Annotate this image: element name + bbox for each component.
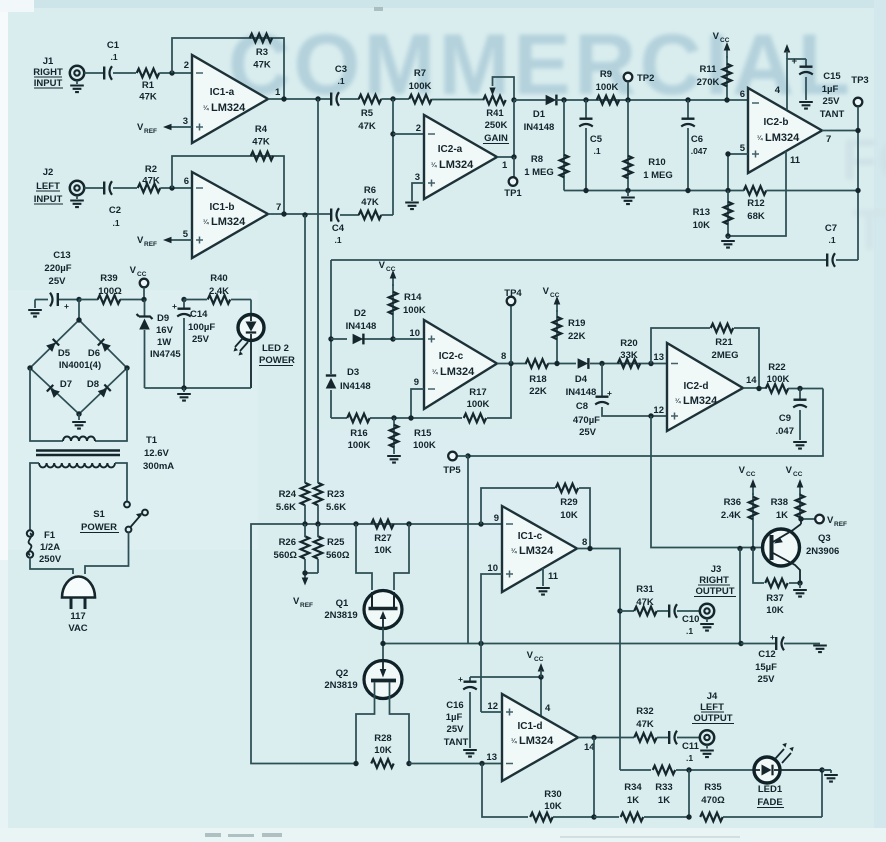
svg-text:12: 12 [653,405,664,416]
ground LED1 [822,770,838,782]
svg-text:LED 2: LED 2 [262,343,289,354]
node TP5 [465,453,470,458]
svg-text:R9: R9 [600,69,612,80]
tie down to bottom line [688,770,690,817]
svg-text:C9: C9 [779,413,791,424]
svg-text:R23: R23 [327,489,344,500]
node R19 [554,361,559,366]
svg-text:.1: .1 [337,76,344,86]
svg-text:LM324: LM324 [683,395,718,407]
svg-text:R15: R15 [414,428,432,439]
capacitor C4 .1 [331,208,345,245]
control line TP5 down to fader [467,456,469,644]
svg-text:270K: 270K [697,77,720,88]
svg-text:R19: R19 [568,318,585,329]
op-amp IC2-b [740,88,832,173]
svg-text:1W: 1W [157,337,171,348]
svg-text:R14: R14 [404,292,422,303]
svg-text:R20: R20 [620,338,637,349]
resistor R9 100K [596,69,620,104]
pin12 wire [481,711,502,713]
resistor R36 2.4K [721,493,757,549]
svg-text:250K: 250K [485,120,508,131]
svg-text:47K: 47K [252,137,270,148]
svg-text:25V: 25V [447,724,465,735]
svg-text:10K: 10K [374,745,392,756]
svg-text:REF: REF [144,128,157,135]
node C14 top [181,297,186,302]
svg-text:TANT: TANT [820,109,845,120]
node output/R17 [508,361,513,366]
Vcc feed R14 [379,260,397,286]
svg-text:2: 2 [184,60,189,71]
capacitor C2 .1 [104,181,121,228]
ground under R15 [387,452,401,463]
resistor R25 560 [314,524,350,573]
pin11 wire IC2-b [728,151,801,236]
svg-text:V: V [137,235,144,246]
wire J1 to C1 [84,72,103,74]
node LED right [819,767,824,772]
svg-text:100K: 100K [767,374,790,385]
node R29 tap [478,521,483,526]
svg-text:D2: D2 [354,308,366,319]
svg-text:R38: R38 [771,497,788,508]
svg-text:POWER: POWER [81,522,117,533]
node Q3 base / R36 [750,546,755,551]
wire R6 up to pin2 node [381,214,393,216]
svg-text:C2: C2 [109,205,121,216]
svg-text:¼: ¼ [431,161,437,169]
svg-text:7: 7 [826,134,831,145]
svg-text:100K: 100K [403,305,426,316]
svg-text:47K: 47K [358,121,376,132]
node R21 tap [648,361,653,366]
node R13/pin11 ground [725,233,730,238]
svg-text:INPUT: INPUT [34,78,63,89]
Q2 bracket to R28 [356,682,409,764]
svg-text:C14: C14 [190,309,208,320]
svg-text:R35: R35 [704,782,722,793]
capacitor C3 .1 [331,64,347,106]
svg-text:10K: 10K [560,510,578,521]
resistor R39 100ohm [79,273,144,304]
node pin2 tap [390,131,395,136]
resistor R37 10K [753,549,800,617]
ground under Q3 [793,583,807,597]
svg-text:Q1: Q1 [336,598,349,609]
svg-text:R22: R22 [768,362,785,373]
svg-text:R24: R24 [279,489,297,500]
svg-text:.047: .047 [776,426,795,437]
resistor R11 270K [697,56,732,100]
resistor R22 100K [766,362,823,393]
wire D1 to IC2-b pin6 [564,99,748,101]
svg-text:1 MEG: 1 MEG [524,167,554,178]
node pin5 [725,151,730,156]
capacitor C9 .047 [776,389,807,449]
Vref feed pin5 IC1-b [137,235,192,248]
svg-text:C8: C8 [576,401,588,412]
svg-text:LM324: LM324 [211,102,246,114]
summing line with left loop [251,524,502,764]
svg-text:.1: .1 [686,753,693,763]
zener D9 16V 1W IN4745 [137,300,182,389]
wire C2 to R2 [113,187,137,189]
svg-text:D1: D1 [533,109,546,120]
svg-text:C13: C13 [53,250,70,261]
wire node down to pin2 [392,99,394,215]
svg-text:16V: 16V [156,325,174,336]
svg-text:IC2-a: IC2-a [438,144,463,155]
svg-text:TP5: TP5 [443,465,461,476]
pin9 wire loop [411,389,424,418]
R27 bracket to Q1 [356,524,409,590]
svg-text:47K: 47K [636,719,654,730]
svg-text:IC1-c: IC1-c [518,531,543,542]
svg-text:TP1: TP1 [504,188,522,199]
svg-text:14: 14 [746,375,757,386]
svg-text:.1: .1 [112,218,119,228]
summing nodes [302,521,307,526]
svg-text:S1: S1 [93,509,105,520]
svg-text:R16: R16 [350,428,367,439]
svg-text:10K: 10K [374,545,392,556]
svg-text:470µF: 470µF [573,415,600,426]
svg-text:300mA: 300mA [143,461,174,472]
pin5 wire IC2-b [728,154,748,191]
diode D2 IN4148 [331,308,393,344]
Vcc feed R19 [543,286,561,312]
feedback resistor R21 2MEG [651,324,759,389]
svg-text:D3: D3 [347,367,359,378]
wire IC2-d output [743,387,766,389]
resistor R4 47K [251,124,274,160]
svg-text:R31: R31 [636,584,654,595]
JFET Q2 2N3819 [324,660,402,699]
svg-text:2.4K: 2.4K [721,510,741,521]
wire IC2-a output [497,100,514,157]
feedback resistor R29 10K [481,484,590,549]
svg-text:J2: J2 [43,167,54,178]
svg-text:IC1-a: IC1-a [210,87,235,98]
svg-text:V: V [527,650,534,661]
wire R7 to R41 [432,99,484,101]
wires to plug [30,532,129,574]
node R21 output [756,386,761,391]
svg-text:47K: 47K [361,197,379,208]
Vcc line pin4 IC1-d [470,650,551,716]
svg-text:25V: 25V [192,334,210,345]
svg-text:5: 5 [183,229,189,240]
AC plug 117 VAC [62,577,95,635]
bridge rectifier D5 D6 D7 D8 [27,300,129,417]
svg-text:CC: CC [386,266,396,273]
wire IC1-d output [578,737,634,739]
svg-text:5.6K: 5.6K [326,502,346,513]
capacitor C14 100uF 25V [172,300,215,389]
op-amp IC1-d [486,694,595,781]
wire to pin10 [393,338,424,340]
svg-text:1K: 1K [627,795,639,806]
svg-text:LM324: LM324 [765,132,800,144]
svg-text:TH: TH [852,198,886,263]
node C5 [583,97,588,102]
svg-text:R7: R7 [414,68,426,79]
transistor Q3 2N3906 [763,519,840,583]
svg-text:C16: C16 [446,700,463,711]
test point TP4 [504,288,522,364]
capacitor C10 .1 [669,604,699,636]
ground symbol on rail [621,191,635,205]
Vcc feed R11 [713,31,731,58]
resistor R6 47K [359,185,382,219]
svg-text:R39: R39 [100,273,117,284]
wire IC1-b output to C4 [268,213,330,215]
wire to IC1-d pin13 [409,763,502,765]
Vcc terminal [130,265,149,300]
capacitor C11 .1 [669,731,699,763]
op-amp IC2-c [409,320,506,409]
svg-text:100µF: 100µF [188,322,215,333]
svg-text:Q3: Q3 [818,533,831,544]
svg-text:47K: 47K [636,597,654,608]
svg-text:12.6V: 12.6V [144,448,169,459]
svg-text:R34: R34 [624,782,642,793]
svg-text:5.6K: 5.6K [276,502,296,513]
svg-text:IN4148: IN4148 [566,387,597,398]
resistor R19 22K [553,310,586,364]
svg-text:560Ω: 560Ω [274,550,298,561]
svg-text:.047: .047 [691,146,708,156]
svg-text:FADE: FADE [757,797,782,808]
resistor R31 47K [620,584,668,615]
svg-text:560Ω: 560Ω [326,550,350,561]
svg-text:C7: C7 [825,223,837,234]
capacitor C5 .1 [579,100,603,191]
svg-text:CC: CC [534,656,544,663]
svg-text:25V: 25V [823,96,841,107]
resistor R23 5.6K [314,481,347,524]
node mix [390,96,395,101]
wire IC1-c output down to R31/R33 [577,549,620,771]
svg-text:T1: T1 [146,435,158,446]
svg-text:7: 7 [276,202,281,213]
svg-text:C1: C1 [107,40,120,51]
svg-text:1/2A: 1/2A [40,542,60,553]
capacitor C1 .1 [104,40,120,80]
op-amp IC1-b [183,172,282,258]
svg-text:D5: D5 [58,348,71,359]
node R11 pin6 [724,97,729,102]
fuse F1 1/2A 250V [27,530,62,565]
svg-text:IN4745: IN4745 [150,349,181,360]
svg-text:2MEG: 2MEG [712,350,739,361]
svg-text:15µF: 15µF [755,662,777,673]
node R3 output [281,96,286,101]
capacitor C15 1uF 25V TANT [791,56,844,120]
resistor R7 100K [409,68,432,103]
node TP2/R10 [625,97,630,102]
LED 1 FADE [754,743,831,808]
svg-text:2: 2 [416,123,421,134]
scan smudges [205,7,740,838]
op-amp IC2-d [653,343,757,431]
svg-text:25V: 25V [758,674,776,685]
svg-text:117: 117 [70,611,85,622]
wire R2 to IC1-b pin6 [160,187,192,189]
svg-text:J4: J4 [707,691,718,702]
svg-text:47K: 47K [142,176,160,187]
svg-text:CC: CC [746,471,756,478]
svg-text:R41: R41 [486,108,504,119]
resistor R27 10K [371,520,394,556]
feedback resistor R12 68K [744,186,767,222]
svg-text:RIGHT: RIGHT [699,575,729,586]
svg-text:1: 1 [275,87,281,98]
svg-text:R6: R6 [364,185,376,196]
feedback resistor R17 100K [464,364,511,423]
svg-text:R26: R26 [279,537,296,548]
Vcc feed R38 [786,465,804,495]
capacitor C8 470uF 25V [573,364,667,439]
svg-text:IC1-b: IC1-b [210,202,235,213]
ground rail under IC2-b [564,190,858,192]
op-amp IC1-a [183,55,281,143]
node base branch [737,546,742,551]
node branch to R24 [302,212,307,217]
svg-text:10K: 10K [766,605,784,616]
capacitor C13 220uF 25V [35,250,79,311]
svg-text:V: V [379,260,386,271]
svg-text:R1: R1 [142,80,155,91]
control line down to TP5 [468,389,823,457]
node R34/R35 [686,814,691,819]
svg-text:V: V [786,465,793,476]
node R41/D1/output [511,97,516,102]
capacitor C6 .047 [681,100,707,191]
pin4 Vcc wire and arrow [775,44,806,110]
resistor R3 47K [250,34,273,71]
svg-text:R25: R25 [327,537,345,548]
svg-text:R3: R3 [256,47,268,58]
svg-text:10: 10 [409,328,420,339]
svg-text:6: 6 [184,176,189,187]
node output 14 [591,735,596,740]
svg-text:J3: J3 [711,564,722,575]
node C14 bottom [181,385,186,390]
svg-text:¼: ¼ [203,218,209,226]
wire IC1-a output to C3 [268,98,330,100]
svg-text:R36: R36 [724,497,741,508]
svg-text:¼: ¼ [203,104,209,112]
node R30/R34 [591,814,596,819]
bottom line R16 [331,414,462,451]
svg-text:CC: CC [550,292,560,299]
svg-text:C6: C6 [691,134,703,145]
svg-text:C12: C12 [758,649,775,660]
wire feedback loop R4 [172,156,284,214]
svg-text:IC1-d: IC1-d [518,721,543,732]
svg-text:LM324: LM324 [211,216,246,228]
pin11 ground IC1-c [536,568,559,595]
svg-text:100K: 100K [413,440,436,451]
diode D3 IN4148 [326,339,371,418]
svg-text:1µF: 1µF [822,84,839,95]
svg-text:Q2: Q2 [336,668,349,679]
svg-text:R18: R18 [529,374,546,385]
svg-text:GAIN: GAIN [484,133,508,144]
svg-text:R11: R11 [700,64,718,75]
svg-text:LEFT: LEFT [700,702,724,713]
svg-text:C5: C5 [590,134,603,145]
wire R5 to R7 [381,98,409,100]
svg-text:LM324: LM324 [440,366,475,378]
svg-text:10K: 10K [693,220,711,231]
svg-text:+: + [458,674,463,684]
svg-text:100K: 100K [348,440,371,451]
svg-text:3: 3 [415,172,420,183]
svg-text:CC: CC [793,471,803,478]
svg-text:R5: R5 [361,108,374,119]
svg-text:D8: D8 [87,379,99,390]
svg-text:C10: C10 [682,614,699,625]
svg-text:2N3819: 2N3819 [324,680,357,691]
svg-text:¼: ¼ [511,547,517,555]
svg-text:C4: C4 [332,223,345,234]
svg-text:V: V [739,465,746,476]
svg-text:R27: R27 [374,533,391,544]
resistor R20 33K [618,338,641,368]
branch output down [593,738,595,818]
svg-text:IN4148: IN4148 [524,122,555,133]
svg-text:REF: REF [834,521,847,528]
svg-text:R30: R30 [544,789,561,800]
svg-text:V: V [293,596,300,607]
ground pin3 IC2-a [405,183,424,209]
jack J3 RIGHT OUTPUT [694,564,736,631]
svg-text:¼: ¼ [675,397,681,405]
svg-text:2N3906: 2N3906 [806,546,839,557]
svg-text:D6: D6 [88,348,100,359]
resistor R28 10K [371,733,394,768]
svg-text:¼: ¼ [757,134,763,142]
node C9 [797,386,802,391]
resistor R32 47K [634,706,668,742]
svg-text:V: V [713,31,720,42]
svg-text:CC: CC [137,271,147,278]
Vref arrow under R25/R26 [293,570,318,609]
svg-text:INPUT: INPUT [34,194,63,205]
diode D1 IN4148 [524,95,564,133]
svg-text:5: 5 [740,143,746,154]
node output pin1 [511,154,516,159]
svg-text:D7: D7 [60,379,72,390]
svg-text:R10: R10 [648,157,665,168]
svg-text:4: 4 [775,85,781,96]
svg-text:10K: 10K [544,801,562,812]
svg-text:9: 9 [414,377,419,388]
svg-text:R21: R21 [715,337,733,348]
svg-text:R32: R32 [636,706,653,717]
svg-text:68K: 68K [747,211,765,222]
svg-text:V: V [137,122,144,133]
node D2 line left [328,336,333,341]
svg-text:IC2-c: IC2-c [439,351,464,362]
svg-text:FO: FO [842,128,886,193]
svg-text:D9: D9 [157,313,169,324]
wire R1 to IC1-a pin2 [159,72,192,74]
